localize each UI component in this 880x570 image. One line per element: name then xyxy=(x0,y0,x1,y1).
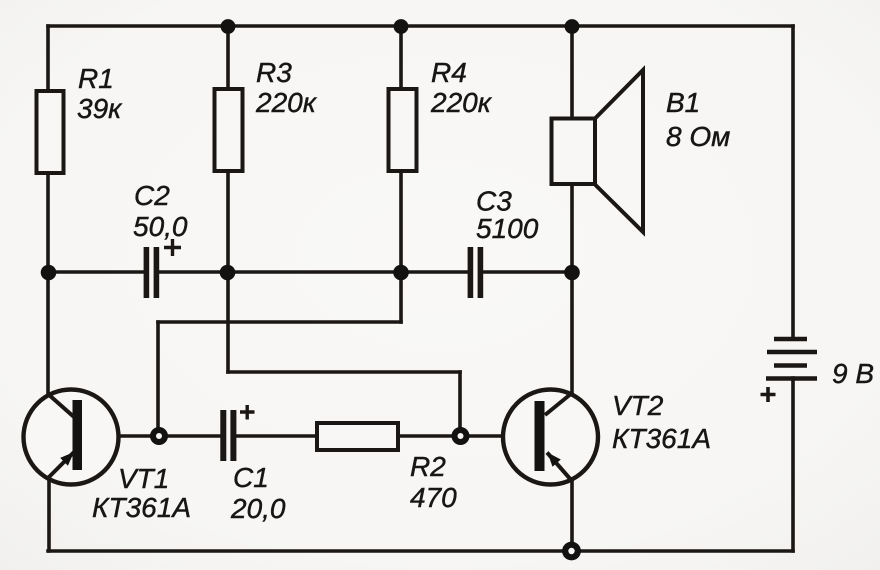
node: top rail / R4 junction xyxy=(394,19,409,34)
wire: down into node B (VT2 base node) xyxy=(458,372,462,436)
resistor R4 xyxy=(389,57,493,171)
wire: R3 stem from top rail xyxy=(226,26,230,89)
wire: top supply rail xyxy=(48,24,793,28)
node: C3 / R4 junction xyxy=(393,265,409,281)
svg-text:470: 470 xyxy=(410,482,457,513)
wire: VT2 emitter to bottom rail xyxy=(570,482,574,551)
wire: down into VT1 base node xyxy=(156,322,160,436)
resistor R2 xyxy=(317,423,457,513)
svg-text:8 Ом: 8 Ом xyxy=(666,121,730,152)
svg-text:C1: C1 xyxy=(233,462,269,493)
wire: right rail upper (to battery) xyxy=(791,26,795,339)
svg-text:220к: 220к xyxy=(255,87,318,118)
wire: R4 bottom to mid node xyxy=(399,171,403,273)
wire: cross-coupling from R4/C3 node down xyxy=(399,273,403,322)
svg-text:9 В: 9 В xyxy=(832,358,874,389)
node: C2 / R3 junction xyxy=(220,265,236,281)
svg-text:R4: R4 xyxy=(431,57,467,88)
svg-text:39к: 39к xyxy=(77,93,123,124)
svg-text:B1: B1 xyxy=(666,87,700,118)
svg-text:C2: C2 xyxy=(134,180,170,211)
svg-text:VT2: VT2 xyxy=(612,390,664,421)
node: VT2 emitter / bottom rail junction xyxy=(562,542,581,561)
node: top rail / R3 junction xyxy=(221,19,236,34)
wire: bottom rail xyxy=(48,549,793,553)
wire: left rail, R1 bottom to VT1 collector node xyxy=(46,171,50,394)
wire: VT1 base lead to node xyxy=(82,434,159,438)
node: VT1 base junction xyxy=(150,427,168,445)
svg-text:R3: R3 xyxy=(256,57,292,88)
svg-text:C3: C3 xyxy=(476,186,512,217)
svg-text:КТ361А: КТ361А xyxy=(92,492,191,523)
battery GB1 9 V xyxy=(761,339,818,402)
node: left rail / C2 junction xyxy=(41,265,57,281)
transistor VT1 xyxy=(24,390,192,524)
svg-text:50,0: 50,0 xyxy=(133,211,188,242)
svg-text:VT1: VT1 xyxy=(118,463,169,494)
wire: node to C1 left plate xyxy=(159,434,221,438)
wire: right rail lower (from battery to bottom rail) xyxy=(791,378,795,551)
capacitor C2 xyxy=(133,180,188,298)
wire: cross-coupling from R3/C2 node down xyxy=(226,273,230,372)
wire: mid rail left segment (node A to C2 left plate) xyxy=(48,270,144,274)
wire: VT2 collector stem from mid node xyxy=(570,273,574,392)
resistor R1 xyxy=(37,63,124,173)
wire: R4 stem from top rail xyxy=(399,26,403,89)
wire: cross-coupling horizontal to node B column xyxy=(228,370,460,374)
resistor R3 xyxy=(215,57,318,171)
transistor VT2 xyxy=(503,390,711,485)
svg-text:220к: 220к xyxy=(430,87,493,118)
wire: R3 bottom to mid node xyxy=(226,171,230,273)
wire: left rail, top rail to R1 top xyxy=(46,26,50,91)
wire: node B to VT2 base xyxy=(460,434,535,438)
svg-text:КТ361А: КТ361А xyxy=(612,423,711,454)
wire: mid rail centre segment (C2 right plate to C3 left plate) xyxy=(159,270,468,274)
node B: VT2 base junction xyxy=(452,427,470,445)
wire: B1 bottom to mid node xyxy=(570,184,574,273)
speaker B1 xyxy=(552,70,731,232)
wire: C1 right plate to R2 left end xyxy=(237,434,317,438)
node: C3 / B1 junction xyxy=(564,265,580,281)
svg-text:20,0: 20,0 xyxy=(230,493,286,524)
wire: left rail, VT1 emitter to bottom rail xyxy=(47,479,51,551)
node: top rail / B1 junction xyxy=(565,19,580,34)
capacitor C3 xyxy=(468,186,539,299)
wire: mid rail right segment (C3 right plate to B1 node) xyxy=(483,270,572,274)
svg-text:R1: R1 xyxy=(78,63,114,94)
wire: R2 right end to node B xyxy=(398,434,460,438)
capacitor C1 xyxy=(220,405,286,524)
svg-text:5100: 5100 xyxy=(476,213,539,244)
wire: B1 stem from top rail xyxy=(570,26,574,119)
wire: cross-coupling horizontal to VT1 base column xyxy=(158,320,401,324)
svg-text:R2: R2 xyxy=(410,451,446,482)
